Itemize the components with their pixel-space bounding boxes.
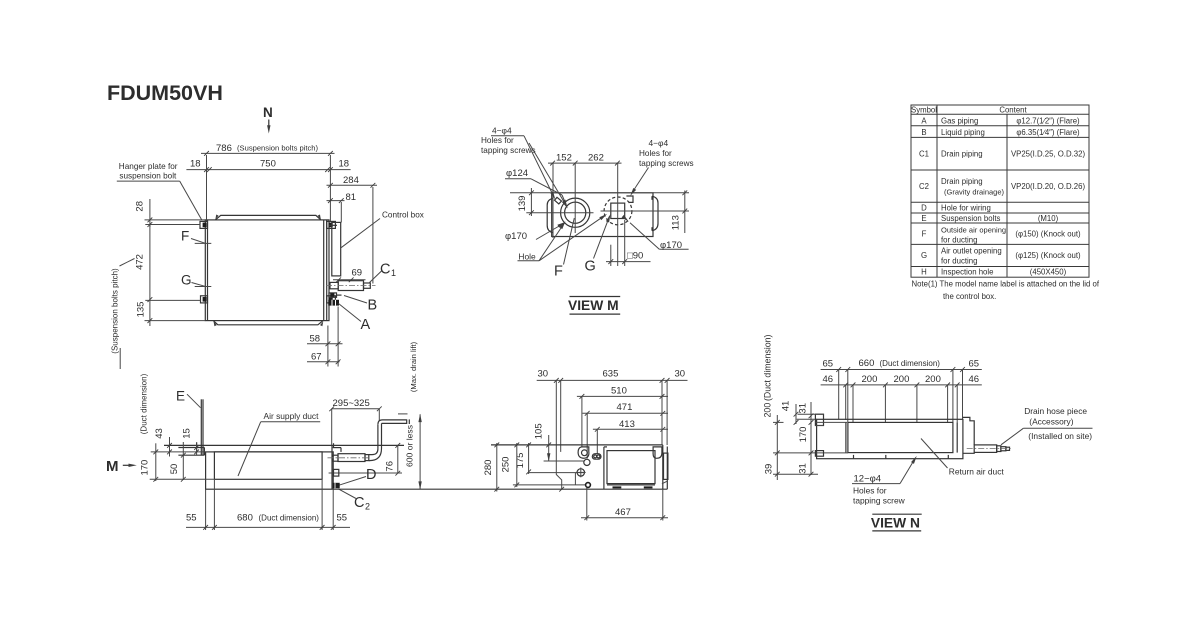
svg-text:Holes for: Holes for bbox=[853, 486, 887, 496]
panel plate (VIEW M face) bbox=[552, 193, 653, 237]
svg-text:262: 262 bbox=[588, 153, 604, 164]
svg-text:Hanger plate for: Hanger plate for bbox=[119, 162, 178, 171]
N arrow bbox=[268, 120, 270, 129]
svg-text:(φ150) (Knock out): (φ150) (Knock out) bbox=[1015, 230, 1081, 239]
screw hole mark right bbox=[626, 196, 633, 202]
svg-text:E: E bbox=[921, 214, 926, 223]
unit body (plan view) bbox=[205, 220, 329, 321]
svg-text:(Duct dimension): (Duct dimension) bbox=[140, 373, 149, 434]
dims 58 / 67 bbox=[327, 326, 329, 367]
svg-text:152: 152 bbox=[556, 153, 572, 164]
unit top edge extension left bbox=[797, 418, 817, 420]
svg-text:55: 55 bbox=[337, 513, 348, 524]
centerline G horizontal / 113 extension bbox=[601, 210, 690, 212]
svg-text:139: 139 bbox=[517, 196, 528, 212]
svg-text:41: 41 bbox=[781, 401, 792, 412]
svg-text:15: 15 bbox=[182, 428, 193, 439]
centerline F vertical bbox=[574, 164, 576, 234]
drain outlet small circle bbox=[586, 483, 591, 488]
opening F circle (outside air, knock out) bbox=[561, 198, 590, 227]
svg-text:Air outlet opening: Air outlet opening bbox=[941, 247, 1002, 256]
hanger plate bottom-right bbox=[327, 296, 336, 303]
svg-text:284: 284 bbox=[343, 175, 359, 186]
screw hole ticks bottom bbox=[853, 455, 855, 459]
svg-text:750: 750 bbox=[260, 159, 276, 170]
svg-text:(450X450): (450X450) bbox=[1030, 268, 1067, 277]
unit right edge bbox=[662, 445, 664, 489]
pipe C1 (drain piping) bbox=[330, 282, 338, 288]
unit body (side view) bbox=[206, 452, 334, 489]
pipe A (gas piping) bbox=[328, 300, 339, 306]
VIEW M title bbox=[570, 296, 621, 298]
svg-text:B: B bbox=[921, 128, 926, 137]
svg-text:G: G bbox=[585, 259, 596, 275]
svg-text:65: 65 bbox=[823, 358, 834, 369]
svg-text:D: D bbox=[366, 467, 376, 483]
svg-text:Inspection hole: Inspection hole bbox=[941, 268, 993, 277]
svg-text:A: A bbox=[361, 317, 371, 333]
svg-text:(φ125) (Knock out): (φ125) (Knock out) bbox=[1015, 251, 1081, 260]
svg-text:B: B bbox=[368, 298, 378, 314]
duct bottom extension left bbox=[773, 452, 848, 454]
air supply duct opening bbox=[214, 452, 322, 479]
hanger plate top-left bbox=[200, 221, 208, 228]
svg-text:Drain piping: Drain piping bbox=[941, 150, 983, 159]
extension verticals bbox=[560, 380, 562, 452]
svg-text:N: N bbox=[263, 105, 273, 120]
svg-text:the control box.: the control box. bbox=[943, 292, 996, 301]
svg-text:113: 113 bbox=[671, 215, 682, 230]
svg-text:4−φ4: 4−φ4 bbox=[649, 138, 669, 148]
svg-text:471: 471 bbox=[617, 402, 633, 413]
svg-text:250: 250 bbox=[501, 457, 512, 473]
svg-text:28: 28 bbox=[135, 201, 146, 212]
svg-text:Return air duct: Return air duct bbox=[949, 466, 1005, 476]
right stepped block bbox=[963, 417, 974, 453]
centerline F horizontal bbox=[526, 212, 593, 214]
svg-text:635: 635 bbox=[603, 369, 619, 380]
svg-text:C: C bbox=[354, 495, 364, 511]
svg-text:for ducting: for ducting bbox=[941, 257, 977, 266]
svg-text:VIEW N: VIEW N bbox=[871, 516, 920, 531]
svg-text:50: 50 bbox=[169, 464, 180, 475]
svg-text:4−φ4: 4−φ4 bbox=[492, 126, 512, 136]
svg-text:F: F bbox=[922, 230, 927, 239]
svg-text:295~325: 295~325 bbox=[333, 398, 370, 409]
dim 467 bbox=[586, 488, 588, 521]
svg-text:200 (Duct dimension): 200 (Duct dimension) bbox=[763, 334, 773, 417]
svg-text:F: F bbox=[554, 264, 563, 280]
svg-text:Gas piping: Gas piping bbox=[941, 116, 978, 125]
svg-text:Holes for: Holes for bbox=[639, 149, 672, 158]
svg-text:18: 18 bbox=[339, 159, 350, 170]
svg-text:D: D bbox=[921, 204, 927, 213]
svg-text:φ124: φ124 bbox=[506, 168, 528, 179]
svg-text:VP25(I.D.25, O.D.32): VP25(I.D.25, O.D.32) bbox=[1011, 150, 1086, 159]
left duct flange bracket bbox=[547, 198, 553, 232]
svg-text:46: 46 bbox=[823, 374, 834, 385]
svg-text:786: 786 bbox=[216, 143, 232, 154]
gas pipe A flange bbox=[578, 447, 589, 458]
svg-text:2: 2 bbox=[365, 502, 370, 512]
svg-text:65: 65 bbox=[969, 358, 980, 369]
svg-text:105: 105 bbox=[534, 423, 545, 439]
svg-text:VIEW M: VIEW M bbox=[568, 298, 619, 313]
inspection opening rect bbox=[607, 451, 655, 484]
svg-text:Hole for wiring: Hole for wiring bbox=[941, 204, 991, 213]
hanger plate top-right bbox=[327, 221, 336, 228]
svg-text:467: 467 bbox=[615, 507, 631, 518]
svg-text:φ6.35(1∕4″) (Flare): φ6.35(1∕4″) (Flare) bbox=[1016, 128, 1080, 137]
svg-text:660: 660 bbox=[859, 358, 875, 369]
drain pipe riser bbox=[377, 424, 379, 449]
return duct frame (front) bbox=[603, 447, 605, 489]
svg-text:C2: C2 bbox=[919, 182, 929, 191]
svg-text:31: 31 bbox=[798, 403, 809, 414]
opening G circle (air outlet, knock out, dashed) bbox=[604, 197, 632, 225]
svg-text:C1: C1 bbox=[919, 150, 929, 159]
unit top edge bbox=[491, 444, 663, 446]
svg-text:FDUM50VH: FDUM50VH bbox=[107, 81, 223, 105]
left hanger plate (E) bbox=[178, 447, 204, 449]
right edge strip bbox=[664, 453, 668, 479]
svg-text:680: 680 bbox=[237, 513, 253, 524]
svg-text:Outside air opening: Outside air opening bbox=[941, 225, 1006, 234]
svg-text:(Duct dimension): (Duct dimension) bbox=[259, 513, 320, 522]
svg-text:Air supply duct: Air supply duct bbox=[264, 411, 320, 421]
svg-text:55: 55 bbox=[186, 513, 197, 524]
liquid pipe B circle bbox=[584, 459, 590, 465]
svg-text:600 or less: 600 or less bbox=[405, 425, 415, 467]
left hanger brackets bbox=[815, 414, 823, 425]
svg-text:Suspension bolts: Suspension bolts bbox=[941, 214, 1000, 223]
drain pipe elbow to horizontal bbox=[369, 449, 378, 455]
svg-text:Control box: Control box bbox=[382, 211, 424, 220]
svg-text:tapping screws: tapping screws bbox=[639, 159, 694, 168]
svg-text:Symbol: Symbol bbox=[911, 106, 937, 115]
svg-text:Note(1) The model name label: Note(1) The model name label is attached… bbox=[912, 280, 1100, 289]
feet marks bbox=[613, 486, 622, 488]
square hole 90 in G bbox=[611, 203, 625, 218]
suspension bolt rod E bbox=[200, 399, 202, 455]
C2 drain stub bbox=[333, 483, 340, 488]
svg-text:φ12.7(1∕2″) (Flare): φ12.7(1∕2″) (Flare) bbox=[1016, 116, 1080, 125]
svg-text:(Duct dimension): (Duct dimension) bbox=[880, 359, 941, 368]
svg-text:69: 69 bbox=[352, 268, 363, 279]
svg-text:□90: □90 bbox=[627, 251, 643, 262]
hanger bracket plate front-right bbox=[653, 447, 662, 458]
svg-text:31: 31 bbox=[798, 463, 809, 474]
svg-text:(M10): (M10) bbox=[1038, 214, 1059, 223]
svg-text:46: 46 bbox=[969, 374, 980, 385]
unit body view N bbox=[817, 419, 963, 458]
svg-text:suspension bolt: suspension bolt bbox=[119, 172, 177, 181]
right hanger plate bbox=[333, 447, 341, 449]
control box bbox=[332, 222, 341, 276]
svg-text:280: 280 bbox=[483, 460, 494, 476]
svg-text:1: 1 bbox=[391, 268, 396, 278]
right duct flange bracket bbox=[652, 196, 658, 231]
top bevel plate bbox=[216, 215, 321, 219]
VIEW N title bbox=[872, 513, 921, 515]
extension lines bolts pitch bbox=[206, 155, 208, 221]
bottom bevel plate bbox=[214, 321, 323, 325]
terminal oval fitting bbox=[592, 454, 601, 460]
svg-text:Holes for: Holes for bbox=[481, 136, 514, 145]
screw hole mark left bbox=[555, 197, 562, 204]
svg-text:12−φ4: 12−φ4 bbox=[854, 473, 882, 484]
bottom dims 55 / 680 / 55 bbox=[205, 489, 207, 530]
svg-text:G: G bbox=[181, 273, 192, 288]
hanger top line bbox=[164, 444, 404, 446]
svg-text:Drain hose piece: Drain hose piece bbox=[1024, 406, 1087, 416]
svg-text:(Installed on site): (Installed on site) bbox=[1028, 431, 1092, 441]
centerline G vertical bbox=[617, 164, 619, 267]
svg-text:F: F bbox=[181, 229, 189, 244]
svg-text:G: G bbox=[921, 251, 927, 260]
svg-text:76: 76 bbox=[384, 461, 395, 472]
drain hose piece pipes bbox=[974, 445, 997, 453]
svg-text:472: 472 bbox=[135, 254, 146, 270]
svg-text:58: 58 bbox=[310, 334, 321, 345]
svg-text:(Suspension bolts pitch): (Suspension bolts pitch) bbox=[111, 268, 120, 354]
svg-text:for ducting: for ducting bbox=[941, 235, 977, 244]
unit left edge jogged line bbox=[556, 380, 561, 489]
svg-text:510: 510 bbox=[611, 386, 627, 397]
svg-text:200: 200 bbox=[894, 374, 910, 385]
svg-text:170: 170 bbox=[798, 427, 809, 443]
svg-text:43: 43 bbox=[154, 428, 165, 439]
horizontal drain pipe bbox=[338, 454, 365, 462]
svg-text:M: M bbox=[106, 458, 119, 475]
svg-text:(Suspension bolts pitch): (Suspension bolts pitch) bbox=[237, 144, 319, 153]
screw hole column line bbox=[552, 164, 554, 239]
svg-text:200: 200 bbox=[925, 374, 941, 385]
pipe B (liquid piping) bbox=[329, 293, 337, 297]
table frame bbox=[911, 105, 1089, 277]
svg-text:Hole: Hole bbox=[518, 252, 536, 262]
unit bottom edge bbox=[333, 488, 667, 490]
svg-text:170: 170 bbox=[140, 460, 151, 476]
svg-text:200: 200 bbox=[862, 374, 878, 385]
svg-text:Drain piping: Drain piping bbox=[941, 177, 983, 186]
svg-text:67: 67 bbox=[311, 352, 322, 363]
svg-text:39: 39 bbox=[764, 464, 775, 475]
D square (hole for wiring) bbox=[334, 469, 339, 476]
svg-text:(Gravity drainage): (Gravity drainage) bbox=[944, 188, 1005, 197]
svg-text:φ170: φ170 bbox=[505, 231, 527, 242]
svg-text:Content: Content bbox=[999, 106, 1027, 115]
svg-text:(Max. drain lift): (Max. drain lift) bbox=[409, 341, 418, 392]
svg-text:VP20(I.D.20, O.D.26): VP20(I.D.20, O.D.26) bbox=[1011, 182, 1086, 191]
svg-text:E: E bbox=[176, 389, 185, 404]
svg-text:18: 18 bbox=[190, 159, 201, 170]
svg-text:Liquid piping: Liquid piping bbox=[941, 128, 985, 137]
svg-text:81: 81 bbox=[346, 192, 357, 203]
drain pipe C1 circle bbox=[577, 469, 584, 476]
svg-text:H: H bbox=[921, 268, 927, 277]
svg-text:30: 30 bbox=[538, 369, 549, 380]
return air duct opening bbox=[848, 422, 953, 452]
svg-text:(Accessory): (Accessory) bbox=[1029, 417, 1073, 427]
svg-text:30: 30 bbox=[675, 369, 686, 380]
svg-text:135: 135 bbox=[136, 302, 147, 318]
extension lines to pipes bbox=[544, 460, 585, 462]
extension verticals from dims bbox=[838, 370, 840, 420]
svg-text:A: A bbox=[921, 116, 927, 125]
svg-text:413: 413 bbox=[619, 419, 635, 430]
svg-text:tapping screw: tapping screw bbox=[853, 496, 906, 506]
svg-text:C: C bbox=[380, 262, 390, 278]
svg-text:tapping screws: tapping screws bbox=[481, 146, 536, 155]
hanger plate bottom-left bbox=[201, 296, 208, 303]
